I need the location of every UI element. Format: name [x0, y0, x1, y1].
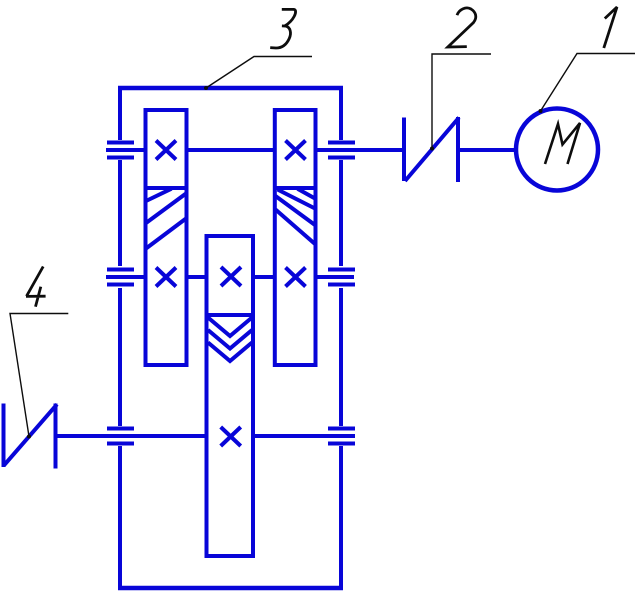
label digit 2	[448, 8, 476, 47]
bearing right intermediate shaft	[328, 270, 355, 285]
coupling 2 left half	[404, 117, 459, 182]
output shaft III segments	[56, 434, 356, 438]
bearing left intermediate shaft	[107, 270, 134, 285]
housing top wall	[118, 86, 343, 91]
leader dot 4	[27, 435, 31, 439]
leader dot 3	[204, 86, 208, 90]
coupling 4 at output	[4, 404, 58, 469]
spline hatch on left block	[146, 188, 187, 249]
fixed joint x intermediate middle	[221, 267, 241, 286]
gear block column Z3 (output, middle)	[207, 236, 254, 556]
leader line 3	[206, 57, 312, 89]
bearing right input shaft	[328, 143, 355, 158]
leader dot 1	[539, 109, 543, 113]
bearing left input shaft	[107, 143, 134, 158]
leader line 4	[10, 314, 68, 437]
housing right wall segments	[339, 86, 343, 590]
leader line 2	[432, 54, 491, 149]
housing bottom wall	[118, 586, 343, 591]
bearing right output shaft	[328, 429, 355, 444]
leader dot 2	[430, 147, 434, 151]
fixed joint x output	[221, 427, 241, 446]
bearing left output shaft	[107, 429, 134, 444]
fixed joint x input right	[286, 141, 306, 160]
fixed joint x intermediate left	[156, 268, 176, 287]
input shaft I segments	[106, 148, 516, 152]
label digit 3	[270, 9, 295, 48]
motor letter M	[545, 123, 580, 164]
spline hatch on right block	[275, 188, 316, 244]
fixed joint x input left	[156, 141, 176, 160]
leader line 1	[541, 54, 635, 112]
gear block column Z2 (input, right)	[275, 110, 316, 365]
fixed joint x intermediate right	[286, 268, 306, 287]
herringbone gear chevrons	[207, 315, 254, 361]
gear block column Z1 (input, left)	[146, 110, 187, 365]
label digit 4	[26, 267, 46, 307]
label digit 1	[604, 7, 617, 48]
housing left wall segments	[118, 86, 122, 590]
intermediate shaft II segments	[106, 275, 354, 279]
electric motor circle	[516, 109, 598, 191]
